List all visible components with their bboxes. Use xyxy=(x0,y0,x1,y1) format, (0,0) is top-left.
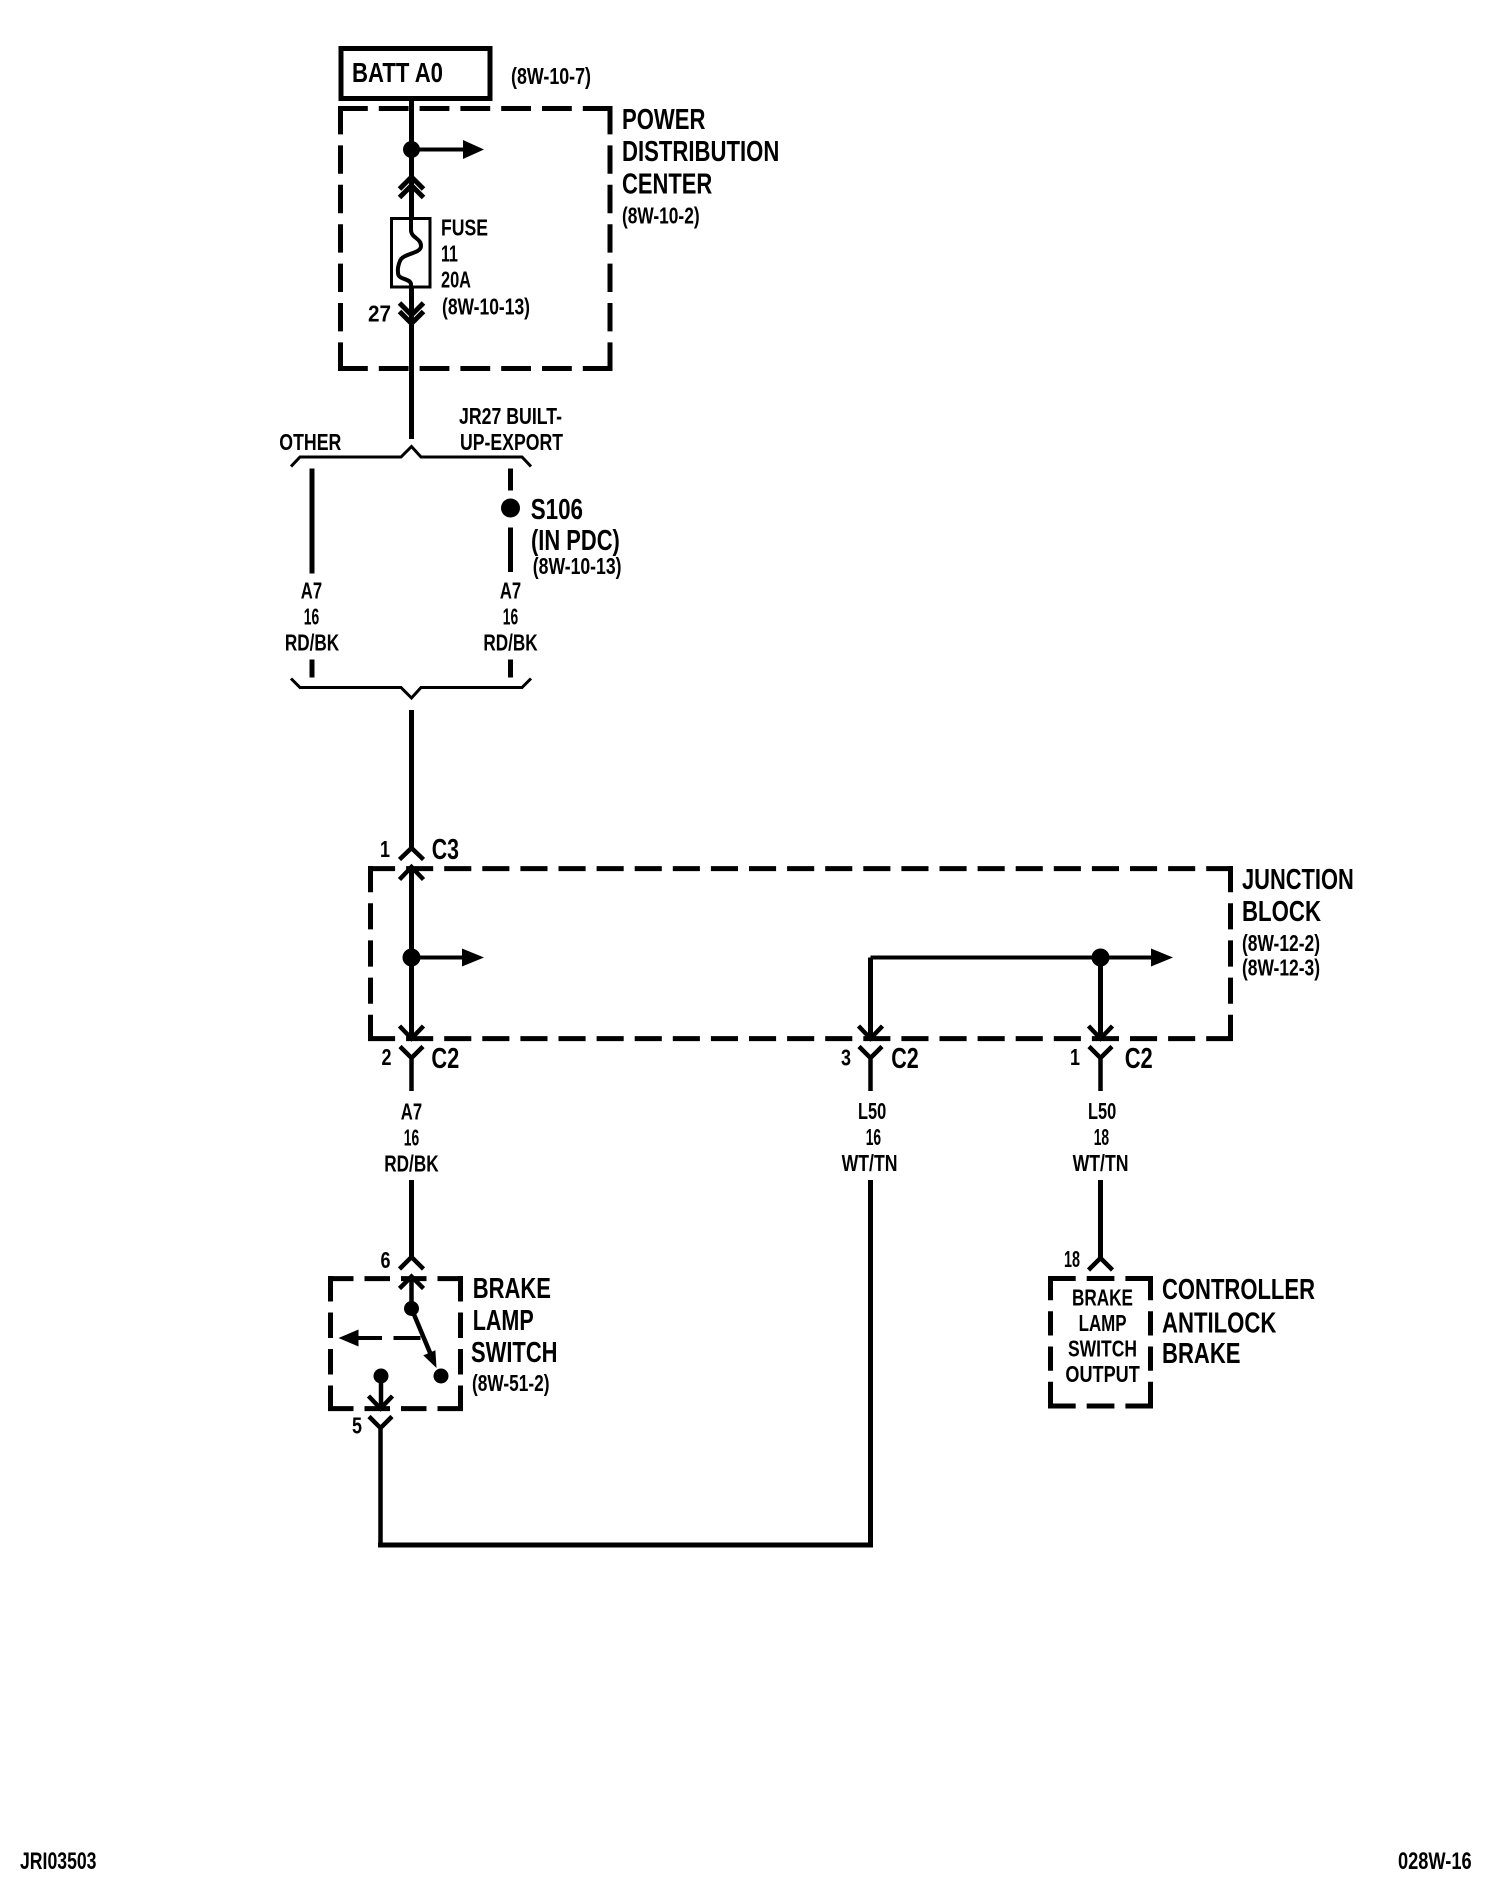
wire stub right into merge xyxy=(508,660,513,678)
svg-text:BRAKE: BRAKE xyxy=(1162,1338,1241,1370)
wire switch output run to right xyxy=(378,1543,873,1548)
wire label A7 16 RD/BK right branch xyxy=(483,578,538,656)
wire WT/TN right column down xyxy=(1098,1180,1103,1258)
pin 27 connector chevrons xyxy=(400,303,424,324)
connector pin 18 xyxy=(1089,1258,1113,1270)
switch S1 throw direction arrow xyxy=(339,1330,421,1347)
svg-text:16: 16 xyxy=(404,1125,419,1151)
svg-text:18: 18 xyxy=(1064,1246,1080,1272)
node splice on bus wire xyxy=(1092,949,1110,967)
label S106 (IN PDC) (8W-10-13) xyxy=(531,494,622,579)
svg-text:C2: C2 xyxy=(891,1043,919,1075)
svg-text:WT/TN: WT/TN xyxy=(842,1150,898,1176)
wire branch JR27 lower segment xyxy=(508,528,513,573)
switch S1 blade with arrowhead xyxy=(412,1309,437,1369)
fuse 11 element wavy line xyxy=(398,218,421,288)
svg-text:(8W-10-7): (8W-10-7) xyxy=(511,63,591,89)
fuse 11 box xyxy=(392,219,431,288)
wire drop to C2 pin 3 xyxy=(868,958,873,1039)
svg-text:6: 6 xyxy=(381,1247,391,1273)
wire RD/BK down to brake lamp switch xyxy=(409,1180,414,1257)
svg-text:UP-EXPORT: UP-EXPORT xyxy=(460,429,563,455)
svg-text:ANTILOCK: ANTILOCK xyxy=(1162,1308,1276,1340)
svg-text:A7: A7 xyxy=(401,1099,422,1125)
pin 18 label xyxy=(1064,1246,1080,1272)
connector C2 pin 1 xyxy=(1089,1026,1153,1091)
label BRAKE LAMP SWITCH OUTPUT inside controller box xyxy=(1065,1284,1139,1387)
svg-text:JRI03503: JRI03503 xyxy=(20,1848,97,1875)
wire split brace xyxy=(291,447,531,467)
battery feed box BATT A0 xyxy=(341,49,490,99)
svg-text:OTHER: OTHER xyxy=(279,429,341,455)
svg-text:(8W-12-2): (8W-12-2) xyxy=(1242,930,1320,956)
reference label (8W-10-7) xyxy=(511,63,591,89)
pin 5 label xyxy=(352,1413,362,1439)
wire WT/TN middle column down xyxy=(868,1180,873,1548)
connector pin 6 xyxy=(400,1257,424,1289)
wire branch OTHER xyxy=(310,469,315,574)
svg-text:LAMP: LAMP xyxy=(473,1305,534,1337)
svg-text:JR27 BUILT-: JR27 BUILT- xyxy=(459,403,562,429)
label OTHER xyxy=(279,429,341,455)
wire label L50 16 WT/TN middle xyxy=(842,1098,898,1176)
svg-text:20A: 20A xyxy=(441,267,471,293)
svg-text:L50: L50 xyxy=(1088,1098,1116,1124)
connector C2 pin 3 xyxy=(859,1026,919,1091)
svg-text:WT/TN: WT/TN xyxy=(1073,1150,1129,1176)
footer sheet number 028W-16 xyxy=(1398,1848,1472,1875)
arrow feed to other circuits in junction block xyxy=(412,949,485,967)
wire drop to C2 pin 1 xyxy=(1098,958,1103,1039)
svg-text:(8W-10-13): (8W-10-13) xyxy=(533,553,622,579)
pin 6 label xyxy=(381,1247,391,1273)
svg-text:11: 11 xyxy=(441,241,458,267)
wire A7 to junction block connector C3 xyxy=(409,710,414,848)
pin 1 label at C3 xyxy=(380,836,390,862)
label BRAKE LAMP SWITCH (8W-51-2) xyxy=(471,1273,558,1396)
node splice in PDC xyxy=(403,141,420,158)
svg-text:27: 27 xyxy=(368,301,391,327)
svg-text:C2: C2 xyxy=(431,1043,459,1075)
power distribution center dashed box xyxy=(338,106,613,371)
svg-text:C2: C2 xyxy=(1125,1043,1153,1075)
label FUSE 11 20A (8W-10-13) xyxy=(441,215,530,320)
svg-text:5: 5 xyxy=(352,1413,362,1439)
svg-text:RD/BK: RD/BK xyxy=(384,1151,439,1177)
svg-text:LAMP: LAMP xyxy=(1079,1310,1127,1336)
wire inside junction block left leg xyxy=(409,867,414,1038)
svg-text:BRAKE: BRAKE xyxy=(473,1273,551,1305)
svg-text:(8W-10-13): (8W-10-13) xyxy=(442,294,530,320)
svg-text:(8W-51-2): (8W-51-2) xyxy=(472,1370,550,1396)
label POWER DISTRIBUTION CENTER (8W-10-2) xyxy=(622,104,779,229)
svg-text:CENTER: CENTER xyxy=(622,169,712,201)
splice S106 xyxy=(501,499,520,518)
svg-text:CONTROLLER: CONTROLLER xyxy=(1162,1274,1315,1306)
bus wire in junction block right side xyxy=(871,949,1174,967)
switch S1 pivot contact xyxy=(404,1301,419,1316)
footer drawing number JRI03503 xyxy=(20,1848,97,1875)
label JR27 BUILT-UP-EXPORT xyxy=(459,403,563,455)
svg-text:3: 3 xyxy=(841,1045,851,1071)
svg-text:18: 18 xyxy=(1094,1124,1110,1150)
wire label A7 16 RD/BK left branch xyxy=(285,578,340,656)
wire merge brace xyxy=(291,679,531,699)
junction block dashed box xyxy=(368,866,1233,1041)
svg-text:BRAKE: BRAKE xyxy=(1072,1284,1133,1310)
svg-text:A7: A7 xyxy=(500,578,521,604)
svg-text:1: 1 xyxy=(1070,1044,1080,1070)
connector C3 xyxy=(400,834,460,880)
svg-text:2: 2 xyxy=(382,1044,392,1070)
pin 1 label right xyxy=(1070,1044,1080,1070)
svg-text:C3: C3 xyxy=(432,834,459,866)
arrow feed to other circuits in PDC xyxy=(412,140,485,159)
label CONTROLLER ANTILOCK BRAKE xyxy=(1162,1274,1315,1370)
pin 2 label xyxy=(382,1044,392,1070)
svg-text:S106: S106 xyxy=(531,494,583,526)
svg-text:(8W-10-2): (8W-10-2) xyxy=(622,203,700,229)
svg-text:(8W-12-3): (8W-12-3) xyxy=(1242,955,1320,981)
pin 3 label xyxy=(841,1045,851,1071)
switch S1 lower contact xyxy=(434,1369,449,1384)
controller antilock brake dashed box xyxy=(1048,1276,1153,1409)
svg-text:DISTRIBUTION: DISTRIBUTION xyxy=(622,136,779,168)
svg-text:BLOCK: BLOCK xyxy=(1242,896,1321,928)
wire branch JR27 upper segment xyxy=(508,469,513,491)
wire label A7 16 RD/BK below junction block xyxy=(384,1099,439,1177)
wire stub left into merge xyxy=(310,660,315,678)
brake lamp switch dashed box xyxy=(328,1276,463,1411)
svg-text:16: 16 xyxy=(304,604,319,630)
svg-text:16: 16 xyxy=(503,604,518,630)
wire label L50 18 WT/TN right xyxy=(1073,1098,1129,1176)
switch S1 output contact xyxy=(374,1369,389,1409)
svg-text:1: 1 xyxy=(380,836,390,862)
wire BATT A0 feed into PDC xyxy=(409,99,414,217)
svg-text:BATT A0: BATT A0 xyxy=(352,57,443,88)
svg-text:028W-16: 028W-16 xyxy=(1398,1848,1472,1875)
svg-text:OUTPUT: OUTPUT xyxy=(1065,1361,1139,1387)
svg-text:JUNCTION: JUNCTION xyxy=(1242,864,1354,896)
svg-text:SWITCH: SWITCH xyxy=(1068,1335,1137,1361)
node splice in junction block left xyxy=(403,949,421,967)
switch S1 common stem xyxy=(409,1277,414,1304)
label JUNCTION BLOCK (8W-12-2) (8W-12-3) xyxy=(1242,864,1354,981)
svg-text:A7: A7 xyxy=(301,578,322,604)
connector C2 pin 2 xyxy=(400,1026,460,1091)
svg-text:FUSE: FUSE xyxy=(441,215,488,241)
svg-text:POWER: POWER xyxy=(622,104,705,136)
connector chevrons above fuse xyxy=(400,177,424,198)
svg-text:L50: L50 xyxy=(858,1098,886,1124)
svg-text:16: 16 xyxy=(866,1124,881,1150)
wire fuse output A0 to split xyxy=(409,288,414,439)
connector pin 5 xyxy=(369,1396,393,1548)
svg-text:RD/BK: RD/BK xyxy=(483,630,538,656)
pin 27 label xyxy=(368,301,391,327)
svg-text:RD/BK: RD/BK xyxy=(285,630,340,656)
svg-text:SWITCH: SWITCH xyxy=(471,1337,558,1369)
